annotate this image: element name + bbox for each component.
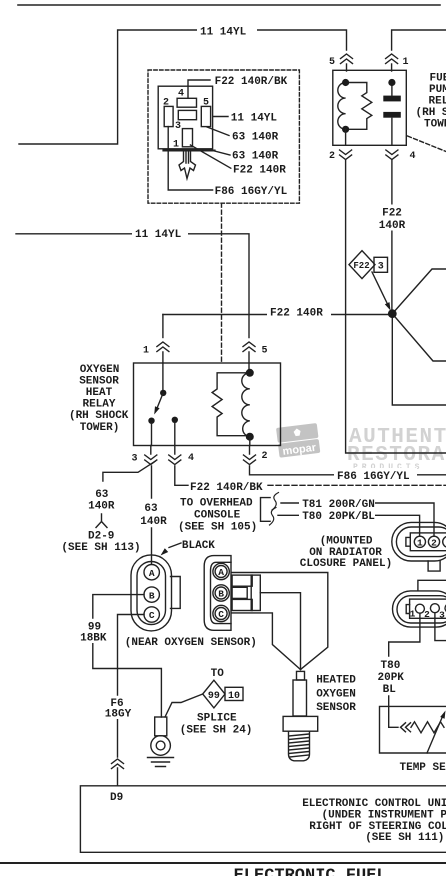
connector body face view in detail box — [158, 86, 212, 149]
wire sensor lead B — [260, 593, 300, 670]
svg-text:D2-9: D2-9 — [88, 531, 114, 543]
svg-text:18GY: 18GY — [105, 709, 132, 721]
svg-text:(RH SHOCK: (RH SHOCK — [416, 107, 446, 119]
svg-text:ON RADIATOR: ON RADIATOR — [309, 547, 382, 559]
connector chevron oxygen relay pin 1 — [157, 342, 169, 352]
switch blade arrowhead — [154, 406, 159, 414]
leader to label F22 14OR/BK — [188, 80, 210, 98]
svg-text:CLOSURE PANEL): CLOSURE PANEL) — [300, 558, 392, 570]
wire branch to splice 99 — [165, 694, 203, 717]
tab on sensor connector — [171, 577, 181, 609]
svg-text:(RH SHOCK: (RH SHOCK — [69, 410, 129, 422]
watermark mopar logo box — [276, 423, 320, 458]
leader to label 11 14YL — [213, 116, 228, 118]
svg-text:TEMP SENSOR: TEMP SENSOR — [400, 762, 446, 774]
label T80 20PK/BL — [299, 509, 375, 521]
svg-text:HEATED: HEATED — [316, 675, 356, 687]
svg-text:TOWER): TOWER) — [80, 422, 120, 434]
connector chevron oxygen relay pin 4 — [169, 455, 181, 465]
splice symbol diamond F22-3 — [349, 251, 375, 279]
svg-text:F22 140R/BK: F22 140R/BK — [215, 76, 288, 88]
svg-text:SENSOR: SENSOR — [79, 375, 119, 387]
svg-text:(NEAR OXYGEN SENSOR): (NEAR OXYGEN SENSOR) — [125, 637, 257, 649]
svg-text:OXYGEN: OXYGEN — [80, 364, 120, 376]
svg-text:RELAY: RELAY — [82, 399, 115, 411]
BLACK label arrow — [169, 543, 181, 548]
splice node S3 dot — [388, 309, 397, 318]
page divider line — [0, 862, 446, 864]
wire stubs below relay box — [151, 446, 250, 455]
svg-text:20PK: 20PK — [378, 672, 405, 684]
wire pin5 stub into relay — [346, 64, 348, 71]
svg-text:RIGHT OF STEERING COLUMN: RIGHT OF STEERING COLUMN — [309, 821, 446, 833]
push pin fastener — [179, 152, 196, 179]
wire splice branch down-right to edge — [392, 314, 446, 361]
wire pin 2 inside relay — [249, 437, 251, 446]
svg-text:B: B — [218, 589, 224, 600]
svg-text:2: 2 — [329, 151, 335, 162]
variable resistor temp sensor — [411, 722, 444, 733]
node switch throw contact — [148, 418, 154, 424]
svg-text:A: A — [149, 568, 155, 579]
svg-text:63: 63 — [95, 489, 109, 501]
label F86 16GY/YL wire — [334, 468, 417, 482]
relay K2 fuel pump relay box — [333, 70, 407, 145]
svg-text:3: 3 — [131, 454, 137, 465]
svg-text:(UNDER INSTRUMENT PANEL: (UNDER INSTRUMENT PANEL — [322, 810, 446, 822]
label 63 14OR to sensor connector — [135, 500, 173, 527]
svg-text:F22 140R: F22 140R — [233, 165, 286, 177]
svg-text:11 14YL: 11 14YL — [135, 229, 182, 241]
svg-text:4: 4 — [188, 453, 194, 464]
pin slot 5 — [201, 106, 210, 126]
node oxygen relay coil top — [246, 369, 254, 377]
svg-text:D9: D9 — [110, 792, 123, 804]
svg-text:10: 10 — [228, 691, 240, 702]
pin slot 3 — [182, 129, 192, 147]
svg-text:5: 5 — [329, 57, 335, 68]
svg-text:SENSOR: SENSOR — [316, 702, 356, 714]
svg-text:(SEE SH 111): (SEE SH 111) — [365, 832, 444, 844]
connector chevron oxygen relay pin 2 — [244, 455, 256, 465]
svg-text:(SEE SH 105): (SEE SH 105) — [178, 521, 257, 533]
wire T80 20PK/BL from lower oval pin to temp sensor — [389, 613, 420, 727]
svg-text:1: 1 — [402, 57, 408, 68]
node oxygen relay coil bottom — [246, 433, 254, 441]
svg-text:11 14YL: 11 14YL — [231, 113, 278, 125]
pin slot center — [178, 110, 196, 119]
svg-text:TOWER): TOWER) — [424, 118, 446, 130]
wire F6 18GY from pin C to ECU — [118, 615, 145, 786]
svg-text:63 140R: 63 140R — [232, 132, 279, 144]
wire F86 16GY/YL from pin 2 right to edge — [250, 466, 446, 475]
connector chevron fuel relay pin 5 — [341, 54, 353, 64]
svg-text:2: 2 — [431, 537, 437, 548]
svg-text:HEAT: HEAT — [86, 387, 113, 399]
svg-text:140R: 140R — [88, 500, 115, 512]
pin 3 upper oval partial — [443, 536, 446, 547]
connector chevron fuel relay pin 1 — [386, 54, 398, 64]
pin slot 4 — [177, 98, 196, 107]
wire 99 18BK from pin B to ring terminal — [93, 595, 162, 717]
svg-text:3: 3 — [378, 262, 384, 273]
svg-text:4: 4 — [409, 151, 415, 162]
wire F22 14OR from fuel relay pin 4 down to splice — [391, 160, 393, 314]
svg-text:PUMP: PUMP — [429, 84, 446, 96]
dashed detail box around connector view — [148, 70, 299, 203]
svg-text:C: C — [149, 610, 155, 621]
node fuel relay coil top — [342, 79, 349, 86]
svg-text:B: B — [149, 590, 155, 601]
pin B sensor connector — [144, 587, 159, 602]
wire splice branch down then right to edge — [392, 314, 446, 405]
terminal B mating connector — [213, 585, 229, 601]
svg-text:T80 20PK/BL: T80 20PK/BL — [302, 511, 375, 523]
svg-text:RELAY: RELAY — [429, 95, 446, 107]
svg-text:63 140R: 63 140R — [232, 151, 279, 163]
dashed wire F22 14OR/BK continuing right — [268, 484, 446, 486]
node switch pivot — [160, 390, 166, 396]
connector C1 radiator closure panel upper oval — [392, 522, 446, 561]
wire T80 20PK/BL to radiator connector — [278, 515, 420, 536]
connector chevron fuel relay pin 4 — [386, 150, 398, 160]
bracket for overhead console wires — [261, 498, 271, 522]
svg-text:5: 5 — [261, 345, 267, 356]
terminal comb bars — [232, 575, 252, 586]
label F22 14OR mid — [267, 305, 331, 319]
connector chevron on F6 wire — [112, 759, 124, 769]
wire 63 14OR branch to D2-9 — [103, 461, 155, 481]
wire oxygen relay pin 1 up to F22 line — [162, 315, 164, 338]
svg-text:C: C — [218, 609, 224, 620]
thread lines on sensor — [289, 734, 309, 757]
svg-text:F22 140R/BK: F22 140R/BK — [190, 482, 263, 494]
pin hole 2 lower oval — [430, 604, 439, 613]
svg-text:1: 1 — [410, 609, 416, 620]
svg-text:2: 2 — [261, 451, 267, 462]
svg-text:CONSOLE: CONSOLE — [194, 510, 241, 522]
pin 2 upper oval — [428, 536, 439, 547]
wire F22 from fuel relay pin 2 down and right to edge — [346, 160, 446, 453]
svg-text:OXYGEN: OXYGEN — [316, 689, 356, 701]
coil of oxygen relay — [242, 373, 250, 437]
splice symbol diamond 99-10 — [203, 680, 225, 708]
relay K1 oxygen sensor heat relay box — [134, 363, 281, 446]
connector chevron fuel relay pin 2 — [340, 150, 352, 160]
svg-text:TO: TO — [211, 668, 225, 680]
node pin 4 common contact — [172, 417, 178, 423]
label 11 14YL lower — [132, 227, 188, 241]
mating connector shell (to heated oxygen sensor) — [204, 556, 231, 631]
connector chevron oxygen relay pin 3 — [145, 455, 157, 465]
svg-text:1: 1 — [417, 537, 423, 548]
top page border line — [18, 4, 440, 6]
wire oxygen relay pin 5 to coil — [248, 363, 250, 373]
watermark AUTHENTIC RESTORATION text — [347, 426, 446, 472]
wire sensor lead A — [232, 573, 328, 670]
wire from lower oval pin 2 to right edge — [435, 613, 446, 641]
connector flange line — [163, 150, 214, 152]
pin hole 1 lower oval — [415, 604, 424, 613]
ring terminal eyelet — [155, 717, 167, 736]
svg-text:TO OVERHEAD: TO OVERHEAD — [180, 498, 253, 510]
terminal C mating connector — [213, 605, 229, 621]
svg-text:FUEL: FUEL — [430, 72, 446, 84]
svg-text:F22: F22 — [353, 261, 369, 271]
pin A sensor connector — [144, 565, 159, 580]
svg-text:5: 5 — [203, 98, 209, 109]
svg-text:99: 99 — [208, 691, 220, 702]
wire splice branch up-right to edge — [392, 269, 446, 314]
label F22 14OR on pin 4 wire — [376, 205, 408, 231]
pin slot 2 — [164, 106, 173, 126]
svg-text:11 14YL: 11 14YL — [200, 27, 247, 39]
wire fuel pump relay pin 1 feed — [392, 30, 446, 50]
half connector chevrons in temp box — [401, 723, 411, 732]
label F6 18GY — [104, 696, 132, 719]
svg-text:2: 2 — [424, 609, 430, 620]
dashed leader from detail box down to relay — [221, 203, 223, 362]
switch blade — [158, 393, 164, 407]
wire pin 3 inside relay — [151, 423, 153, 446]
temp sensor box — [380, 706, 446, 753]
stubs into oxygen relay — [163, 352, 249, 363]
svg-text:140R: 140R — [140, 516, 167, 528]
sensor connector (near oxygen sensor) outer shell — [131, 555, 172, 631]
svg-text:1: 1 — [173, 139, 179, 150]
resistor inside oxygen relay — [212, 373, 250, 436]
wire T81 20OR/GN to radiator connector — [281, 503, 434, 536]
wire pin 4 inside relay — [174, 423, 176, 446]
wire pin1 stub into relay — [391, 64, 393, 71]
leader to label 63 14OR first — [207, 127, 229, 136]
svg-text:(SEE SH 113): (SEE SH 113) — [61, 542, 140, 554]
node fuel relay contact top — [388, 79, 395, 86]
label T80 20PK BL — [375, 657, 403, 695]
svg-text:T80: T80 — [381, 660, 401, 672]
leader to label F86 16GY/YL — [168, 127, 212, 190]
svg-text:4: 4 — [178, 89, 184, 100]
leader to label 63 14OR second — [215, 151, 230, 155]
wire 11 14YL upper run — [19, 30, 347, 144]
svg-text:(MOUNTED: (MOUNTED — [320, 535, 373, 547]
arrow through resistor — [427, 717, 443, 754]
node fuel relay coil bottom — [342, 126, 349, 133]
dashed leader from fuel relay to right — [408, 136, 446, 152]
ground symbol — [148, 758, 174, 767]
connector chevron oxygen relay pin 5 — [243, 342, 255, 352]
contact bars of fuel pump relay — [391, 83, 393, 146]
pin hole 3 lower oval partial — [445, 604, 446, 613]
pin 1 upper oval — [414, 536, 425, 547]
svg-text:SPLICE: SPLICE — [197, 713, 237, 725]
tab below upper oval — [428, 561, 440, 571]
svg-text:(SEE SH 24): (SEE SH 24) — [180, 725, 253, 737]
terminal A mating connector — [213, 563, 229, 579]
tab above lower oval — [418, 580, 446, 590]
svg-text:ELECTRONIC CONTROL UNIT: ELECTRONIC CONTROL UNIT — [302, 798, 446, 810]
coil of fuel pump relay — [338, 83, 346, 130]
connector C2 radiator closure panel lower oval — [393, 591, 446, 627]
half connector squiggle T80 — [270, 508, 277, 526]
svg-text:BL: BL — [383, 684, 397, 696]
svg-text:3: 3 — [175, 121, 181, 132]
svg-text:BLACK: BLACK — [182, 540, 215, 552]
svg-text:1: 1 — [143, 345, 149, 356]
wire 63 14OR down to sensor connector — [151, 466, 153, 564]
splice callout arrow — [372, 272, 387, 303]
svg-text:F86 16GY/YL: F86 16GY/YL — [337, 471, 410, 483]
svg-text:ELECTRONIC FUEL: ELECTRONIC FUEL — [234, 867, 387, 876]
svg-text:A: A — [218, 567, 224, 578]
wire fuel relay pin5 top vertical — [345, 129, 347, 145]
svg-text:18BK: 18BK — [80, 633, 107, 645]
ECU box — [80, 786, 446, 853]
leader to label F22 14OR — [190, 145, 230, 168]
svg-text:F86 16GY/YL: F86 16GY/YL — [215, 186, 288, 198]
label T81 20OR/GN — [299, 497, 375, 509]
svg-text:F22: F22 — [382, 208, 402, 220]
svg-text:F22 140R: F22 140R — [270, 308, 323, 320]
wire 11 14YL lower run to oxygen relay pin 5 — [16, 234, 249, 338]
pin C sensor connector — [144, 607, 159, 622]
svg-text:63: 63 — [144, 503, 158, 515]
trident symbol D2-9 — [96, 514, 107, 528]
heated oxygen sensor body — [297, 671, 305, 680]
svg-text:140R: 140R — [379, 220, 406, 232]
half connector squiggle T81 — [272, 493, 279, 511]
wire F22 14OR/BK from pin 4 to label — [175, 466, 188, 485]
svg-text:3: 3 — [439, 610, 445, 621]
wire sensor lead C — [232, 613, 301, 670]
svg-text:2: 2 — [163, 98, 169, 109]
label 99 18BK — [79, 619, 107, 643]
resistor inside fuel pump relay — [346, 83, 372, 130]
switch fixed contact from pin 1 — [162, 363, 164, 390]
label 11 14YL top — [197, 24, 257, 37]
wire F22 14OR horizontal into splice — [163, 314, 392, 316]
